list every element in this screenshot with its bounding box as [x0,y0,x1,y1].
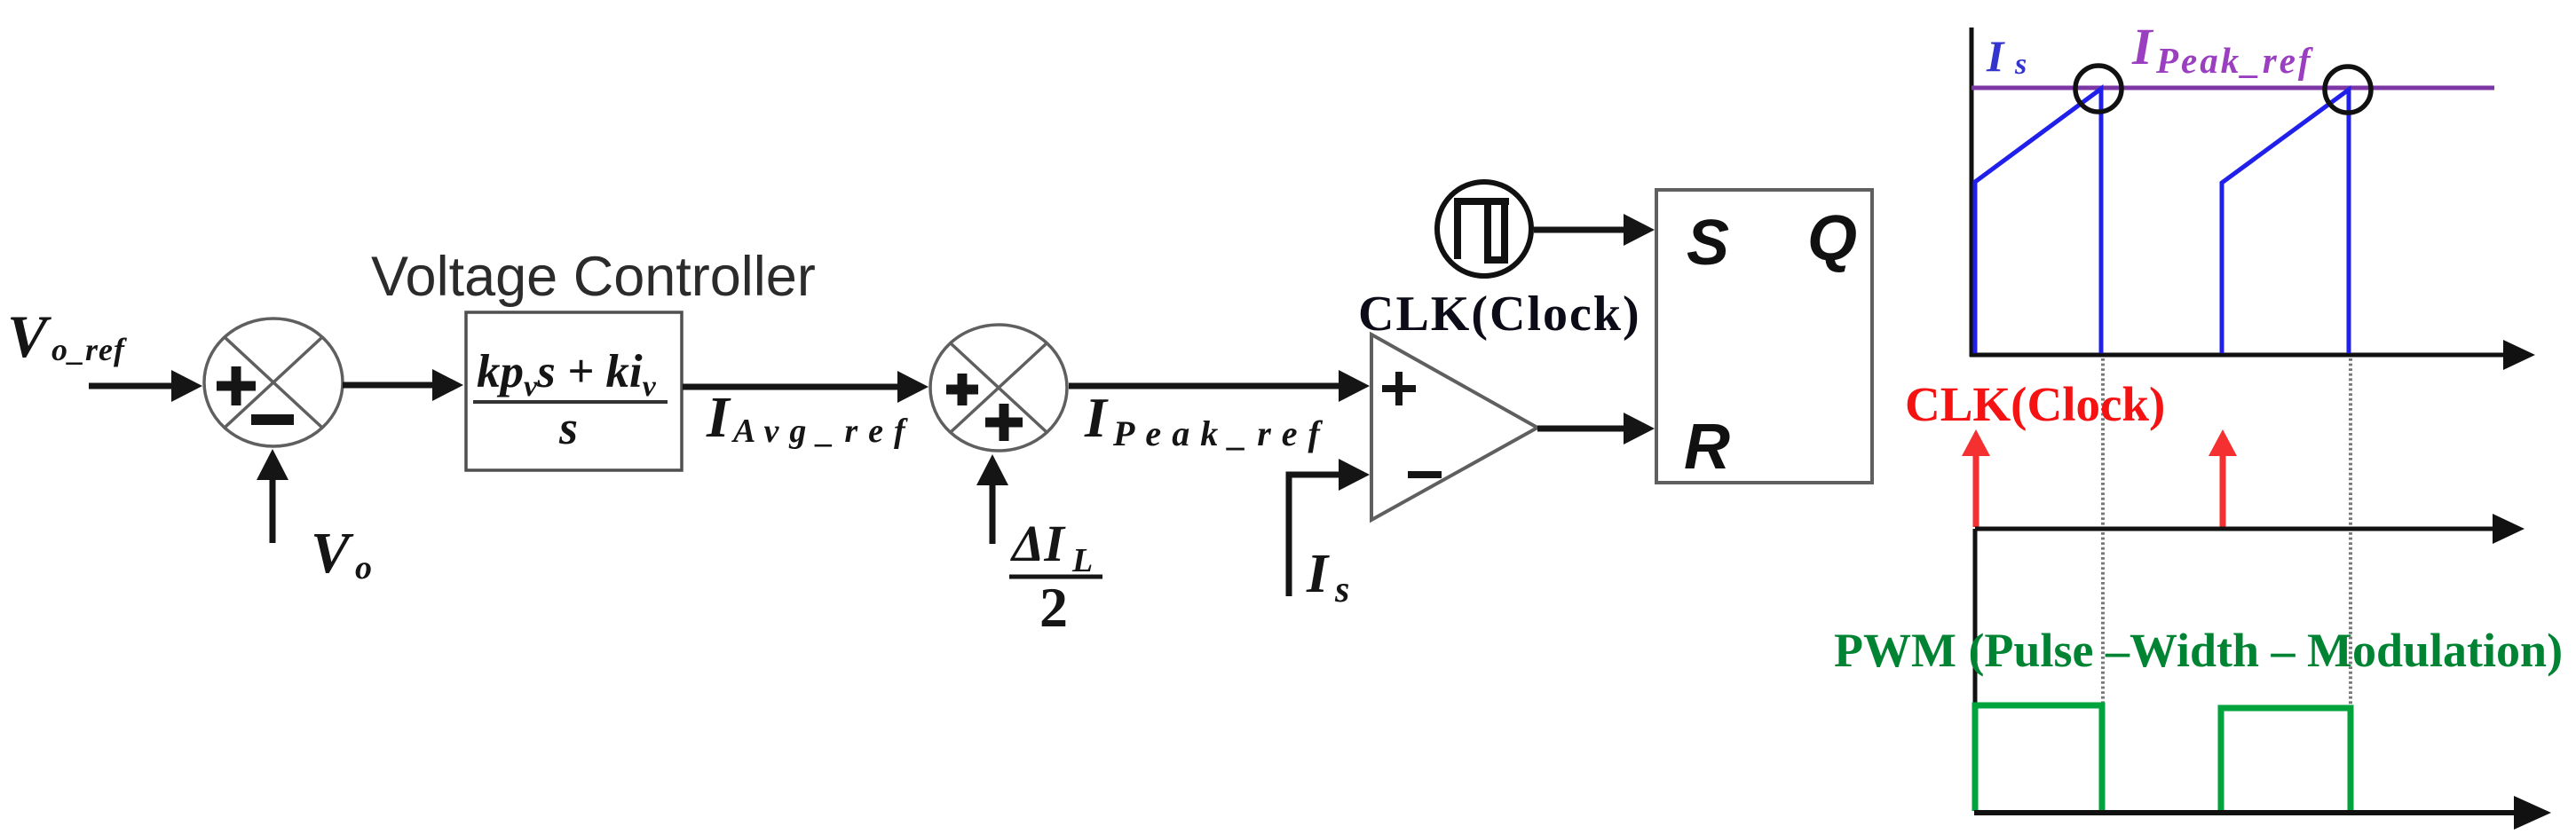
green PWM pulse 1 [1975,705,2102,811]
comparator U1 [1371,334,1537,520]
green PWM pulse 2 [2221,708,2351,811]
svg-text:CLK(Clock): CLK(Clock) [1358,287,1641,342]
block G1 voltage controller (kp_v s + ki_v)/s [466,312,682,470]
node I_Peak_ref label [1084,386,1331,453]
svg-text:I: I [1986,31,2005,81]
wire arrow Vo_ref into summing junction S1 [89,370,202,402]
svg-text:V: V [311,521,354,586]
svg-text:Q: Q [1807,203,1857,274]
svg-text:s: s [1334,570,1349,610]
summing junction S2 [930,325,1067,451]
svg-text:S: S [1687,208,1729,279]
svg-text:kpvs + kiv: kpvs + kiv [477,346,657,403]
waveform plot vertical axis [1970,28,1974,357]
red clock impulse arrow 1 [1962,429,1990,527]
svg-text:I: I [1084,386,1109,449]
svg-text:R: R [1684,412,1730,483]
PWM horizontal axis [1974,796,2551,830]
svg-text:PWM (Pulse –Width – Modulatio: PWM (Pulse –Width – Modulation) [1834,624,2563,677]
svg-text:I: I [706,385,731,450]
wire vertical link CLK axis to PWM baseline [1973,529,1978,710]
CLK horizontal axis [1975,514,2525,544]
red clock impulse arrow 2 [2209,429,2237,527]
svg-text:L: L [1071,542,1093,579]
svg-text:2: 2 [1039,576,1068,639]
summing junction S1 [204,319,343,446]
wire I_s into comparator minus input [1289,459,1370,596]
I_Peak_ref purple threshold line [1972,86,2494,90]
node Vo label [311,521,372,586]
svg-text:I: I [2131,18,2154,75]
svg-text:o_ref: o_ref [51,332,127,367]
wire arrow comparator output to R input [1537,413,1655,445]
dotted timing line 2 [2349,358,2352,706]
svg-text:I: I [1306,544,1330,604]
dotted timing line 1 [2101,358,2105,704]
svg-text:o: o [355,549,372,586]
node I_s label [1306,544,1349,610]
node I_Avg_ref label [706,385,916,450]
waveform plot horizontal axis (inductor current) [1970,340,2535,370]
svg-text:Peak_ref: Peak_ref [1112,413,1331,453]
node I_s blue label (plot) [1986,31,2027,81]
intersection circle 1 [2075,66,2122,112]
blue inductor current tooth 2 [2222,90,2349,353]
label delta I_L over 2 [1009,515,1102,639]
svg-text:s: s [2014,48,2027,81]
svg-text:ΔI: ΔI [1010,515,1066,572]
wire arrow Vo feedback into S1 [257,449,288,543]
clock source CLK symbol [1437,182,1531,276]
wire arrow S2 to comparator U1 plus input [1069,370,1370,402]
node Vo_ref label [7,303,127,370]
svg-text:V: V [7,303,51,370]
wire arrow G1 to summing junction S2 [683,371,928,403]
node I_Peak_ref purple label (plot) [2131,18,2314,81]
blue inductor current tooth 1 [1975,89,2101,353]
intersection circle 2 [2325,67,2371,113]
wire arrow CLK to S input [1534,214,1655,246]
svg-text:s: s [558,401,578,454]
svg-text:Peak_ref: Peak_ref [2155,40,2314,81]
svg-text:Avg_ref: Avg_ref [731,413,916,450]
svg-text:Voltage Controller: Voltage Controller [371,246,816,308]
wire arrow delta IL/2 into S2 [976,454,1008,544]
wire arrow S1 to voltage controller G1 [343,369,463,401]
SR latch U2 [1656,190,1872,483]
svg-text:CLK(Clock): CLK(Clock) [1905,377,2165,431]
